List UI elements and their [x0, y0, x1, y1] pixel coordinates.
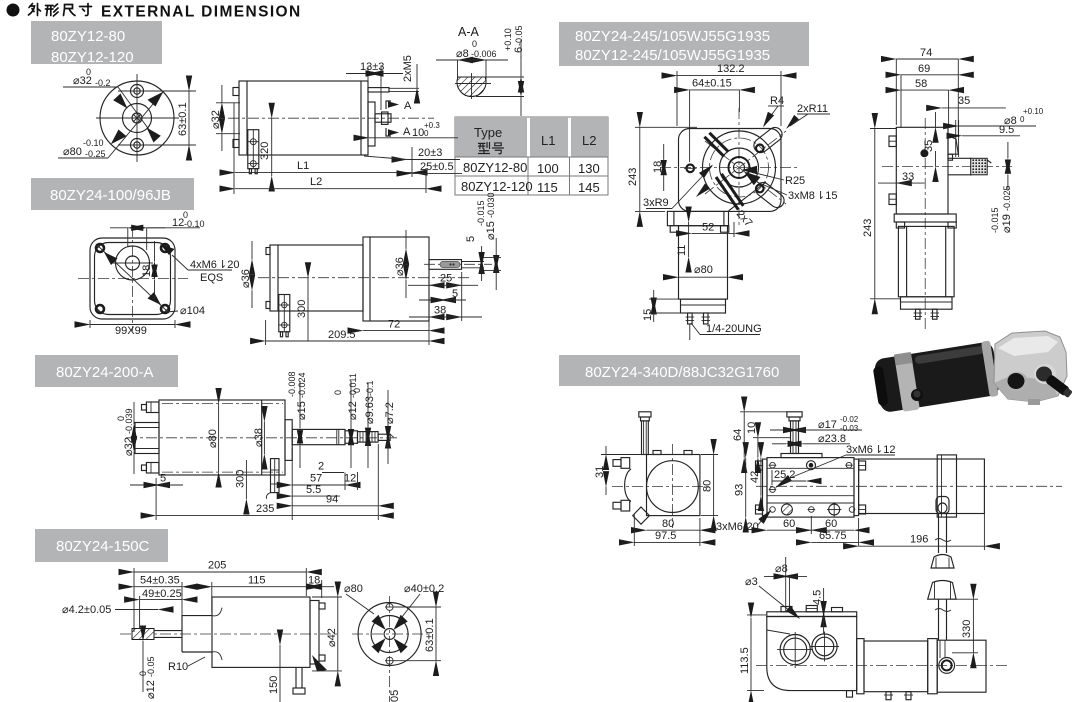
- centerlines: [660, 167, 800, 169]
- DRAWING B: motor side view 80ZY12: [210, 55, 462, 194]
- top screw bumps: [781, 607, 792, 612]
- dim 12: [345, 484, 358, 486]
- dim 64: [743, 412, 745, 458]
- svg-text:80ZY24-245/105WJ55G1935: 80ZY24-245/105WJ55G1935: [575, 28, 770, 45]
- svg-text:80ZY24-200-A: 80ZY24-200-A: [56, 364, 154, 381]
- pilot circle ⌀32: [123, 104, 152, 133]
- svg-text:25.2: 25.2: [774, 469, 795, 481]
- dim 18: [154, 241, 156, 262]
- svg-text:5: 5: [465, 236, 477, 242]
- svg-text:80ZY12-245/105WJ55G1935: 80ZY12-245/105WJ55G1935: [575, 47, 770, 64]
- svg-text:60: 60: [825, 518, 837, 530]
- dim 25±0.5: [412, 172, 462, 174]
- svg-text:L2: L2: [310, 176, 322, 188]
- svg-text:⌀8: ⌀8: [456, 48, 469, 60]
- svg-text:80: 80: [702, 480, 714, 492]
- rear bolt top: [146, 402, 159, 413]
- svg-text:A: A: [404, 100, 412, 112]
- dim 97.5: [634, 541, 700, 543]
- front flange: [368, 102, 375, 146]
- boss outer circle: [703, 131, 776, 204]
- centerline: [756, 664, 1008, 666]
- dim ⌀19: [1007, 142, 1009, 158]
- shaft: [375, 114, 391, 122]
- rear cylinder: [937, 640, 986, 692]
- svg-text:⌀80: ⌀80: [207, 429, 219, 448]
- inner ring: [729, 157, 750, 178]
- centerline: [120, 633, 340, 635]
- svg-text:⌀32: ⌀32: [210, 110, 222, 129]
- dim ⌀36 left: [251, 241, 253, 259]
- glyph 外: [29, 4, 41, 16]
- dim 150 wire: [279, 645, 281, 702]
- svg-text:130: 130: [578, 161, 600, 176]
- hole: [126, 256, 140, 270]
- svg-text:05: 05: [389, 690, 401, 702]
- dim 115: [212, 586, 306, 588]
- PHOTO: motor product photo: [871, 331, 1073, 415]
- shaft lines: [154, 630, 182, 632]
- svg-text:-0.2: -0.2: [95, 78, 111, 88]
- dim 72: [363, 330, 429, 332]
- dim 113.5: [750, 618, 752, 691]
- boss circle: [720, 148, 759, 187]
- svg-text:-0.25: -0.25: [85, 149, 106, 159]
- svg-text:R10: R10: [168, 661, 188, 673]
- svg-text:57: 57: [310, 473, 322, 485]
- left bolts: [621, 458, 630, 469]
- corner diamond: [633, 507, 650, 524]
- svg-text:4xM6: 4xM6: [190, 259, 217, 271]
- dim ⌀36 gearbox boss: [405, 230, 407, 249]
- DRAWING G: 245 front view: [627, 63, 837, 340]
- svg-text:35: 35: [923, 140, 935, 152]
- terminal hook: [271, 459, 280, 493]
- top tabs: [653, 451, 661, 455]
- svg-text:25: 25: [440, 273, 452, 285]
- dim ⌀32 left: [216, 102, 240, 104]
- svg-text:18: 18: [141, 265, 153, 277]
- flanged nut: [928, 581, 956, 600]
- bolt hole top: [131, 85, 144, 98]
- dim L2: [235, 188, 426, 190]
- label box 80ZY24-100/96JB: [31, 178, 194, 210]
- svg-text:EQS: EQS: [200, 272, 223, 284]
- motor flange: [894, 214, 956, 222]
- dim 5.5: [292, 495, 340, 497]
- svg-text:300: 300: [235, 470, 247, 488]
- svg-text:235: 235: [256, 503, 274, 515]
- shaft tip ⌀7.2: [378, 434, 390, 440]
- svg-text:⌀4.2±0.05: ⌀4.2±0.05: [62, 604, 111, 616]
- adjuster screw: [787, 412, 802, 417]
- svg-text:⌀36: ⌀36: [394, 257, 406, 276]
- bottom cap: [901, 297, 953, 309]
- svg-text:-0.02: -0.02: [840, 415, 859, 424]
- DRAWING J: 340D top view: [716, 412, 1062, 553]
- aux dash lines ⌀80: [162, 403, 283, 405]
- svg-text:42: 42: [749, 471, 761, 483]
- relief slots top: [704, 137, 724, 157]
- dim 11: [688, 222, 690, 257]
- gear housing top view: [767, 458, 854, 517]
- end cap: [928, 639, 938, 694]
- svg-text:5: 5: [160, 473, 166, 485]
- dim 5 keyway depth: [481, 246, 483, 259]
- motor flange: [667, 211, 728, 225]
- band: [894, 352, 920, 412]
- boss circle: [116, 246, 150, 280]
- svg-text:94: 94: [326, 494, 338, 506]
- svg-text:L2: L2: [582, 133, 596, 148]
- dim 300 wire: [245, 460, 247, 499]
- 2xM5 screw: [368, 88, 389, 92]
- dim 63±0.1: [435, 607, 437, 661]
- gearbox body: [896, 127, 948, 214]
- bolt hole bottom: [131, 139, 144, 152]
- dim 60 60: [767, 529, 811, 531]
- svg-text:330: 330: [961, 620, 973, 638]
- dim ⌀38: [263, 422, 265, 455]
- svg-text:20±3: 20±3: [418, 147, 442, 159]
- svg-text:R25: R25: [785, 175, 805, 187]
- label box 80ZY24-150C: [35, 529, 168, 562]
- side bolts: [756, 461, 763, 470]
- svg-text:72: 72: [388, 319, 400, 331]
- middle hole: [770, 487, 776, 493]
- dim 63±0.1: [188, 91, 190, 145]
- output shaft: [1045, 374, 1073, 399]
- A10 +0.3 note: [369, 137, 458, 139]
- svg-text:54±0.35: 54±0.35: [140, 575, 180, 587]
- dim 205: [134, 571, 306, 573]
- svg-text:L1: L1: [541, 133, 555, 148]
- shaft ⌀12: [345, 431, 358, 444]
- svg-text:0: 0: [472, 39, 477, 49]
- dim 54±0.35: [134, 586, 182, 588]
- svg-text:209.5: 209.5: [328, 329, 356, 341]
- svg-text:⌀12: ⌀12: [347, 401, 359, 420]
- svg-text:EXTERNAL DIMENSION: EXTERNAL DIMENSION: [101, 4, 302, 21]
- svg-text:⌀38: ⌀38: [253, 428, 265, 447]
- glyph 号: [492, 143, 503, 154]
- svg-text:115: 115: [248, 575, 266, 587]
- ext line rear: [233, 103, 235, 194]
- adjuster screw: [639, 412, 651, 417]
- motor cylinder: [859, 459, 985, 514]
- svg-text:320: 320: [259, 142, 271, 160]
- terminal pins: [249, 169, 251, 174]
- internal ledge: [767, 630, 790, 634]
- diagonal: [96, 244, 169, 313]
- dim 196: [859, 545, 985, 547]
- dim 99X99: [90, 324, 175, 326]
- dim 80 right: [713, 455, 715, 516]
- DRAWING H: 245 side view: [862, 47, 1044, 330]
- svg-text:74: 74: [920, 47, 932, 59]
- shaft ⌀15: [292, 429, 345, 444]
- svg-text:⌀17: ⌀17: [818, 419, 837, 431]
- body: [212, 597, 310, 667]
- motor cylinder black: [871, 339, 1001, 415]
- svg-text:⌀23.8: ⌀23.8: [818, 433, 846, 445]
- flange strips: [763, 459, 768, 515]
- centerlines: [132, 226, 134, 331]
- svg-text:1/4-20UNG: 1/4-20UNG: [706, 323, 762, 335]
- DRAWING F: 150C motor: [62, 560, 444, 702]
- svg-text:0: 0: [333, 390, 343, 395]
- rear stubs: [266, 248, 270, 255]
- svg-text:⌀104: ⌀104: [180, 305, 205, 317]
- svg-text:113.5: 113.5: [739, 647, 751, 674]
- hanging bolt head: [936, 497, 949, 514]
- shaft ext lines: [462, 261, 485, 263]
- dim 6: [520, 56, 522, 77]
- centerline output shaft: [424, 263, 492, 265]
- svg-text:⌀40±0.2: ⌀40±0.2: [404, 583, 444, 595]
- svg-text:5: 5: [452, 288, 458, 300]
- DRAWING A: flange circle view 80ZY12: [58, 67, 196, 162]
- tapped hole lines: [955, 120, 957, 157]
- svg-text:-0.008: -0.008: [287, 371, 297, 397]
- top plate: [767, 612, 857, 617]
- svg-text:-0.05: -0.05: [514, 25, 524, 46]
- foot: [1028, 399, 1040, 405]
- svg-text:35: 35: [958, 95, 970, 107]
- svg-text:0: 0: [1020, 115, 1025, 124]
- dim 300 wire: [307, 278, 309, 341]
- dim 31: [605, 446, 607, 455]
- centerline: [228, 117, 434, 119]
- right cap: [310, 601, 319, 665]
- svg-text:65.75: 65.75: [819, 530, 847, 542]
- pilot boss: [948, 136, 958, 155]
- shaft: [948, 157, 972, 159]
- svg-text:-0.015: -0.015: [990, 207, 1000, 233]
- cap nubs: [319, 603, 325, 609]
- output shaft: [429, 260, 462, 270]
- svg-text:⌀15: ⌀15: [485, 221, 497, 240]
- svg-text:52: 52: [702, 222, 714, 234]
- rear stubs: [233, 88, 239, 96]
- svg-text:80: 80: [662, 518, 674, 530]
- svg-text:⌀80: ⌀80: [344, 583, 363, 595]
- wires: [295, 667, 297, 688]
- svg-text:205: 205: [208, 560, 226, 572]
- glyph 形: [46, 4, 59, 16]
- svg-text:⌀9.63: ⌀9.63: [364, 396, 376, 424]
- glyph 寸: [80, 4, 92, 16]
- ports: [1006, 372, 1028, 392]
- dim 10: [757, 438, 759, 458]
- terminals: [886, 692, 891, 700]
- top shaft dims: [299, 381, 301, 428]
- DRAWING E: 200-A motor: [116, 371, 400, 520]
- bottom row holes: [770, 507, 776, 513]
- svg-text:33: 33: [902, 171, 914, 183]
- svg-text:0: 0: [352, 388, 362, 393]
- dim 15: [653, 290, 655, 299]
- rod: [938, 599, 940, 640]
- svg-text:R4: R4: [770, 95, 784, 107]
- svg-text:60: 60: [783, 518, 795, 530]
- dim 4.5: [823, 588, 825, 612]
- svg-text:⌀80: ⌀80: [694, 264, 713, 276]
- bolt centre ext lines: [118, 90, 196, 92]
- svg-text:0: 0: [424, 129, 429, 138]
- svg-text:11: 11: [676, 245, 688, 256]
- dim 25: [408, 284, 429, 286]
- inner square: [95, 243, 171, 315]
- glyph 尺: [64, 5, 76, 16]
- centerline: [126, 437, 400, 439]
- label box 80ZY12-80/120: [31, 21, 162, 66]
- svg-text:⌀36: ⌀36: [240, 269, 252, 288]
- big bore: [647, 461, 699, 513]
- body: [647, 455, 700, 516]
- DRAWING C: square flange 99x99: [78, 210, 239, 337]
- dim 243: [639, 127, 641, 211]
- svg-text:4.5: 4.5: [812, 590, 824, 605]
- motor body: [679, 226, 728, 299]
- svg-text:80ZY12-80: 80ZY12-80: [51, 28, 125, 45]
- dim 320 wire: [271, 118, 273, 176]
- svg-text:64±0.15: 64±0.15: [692, 78, 732, 90]
- svg-text:80ZY24-100/96JB: 80ZY24-100/96JB: [50, 187, 171, 204]
- front boss ⌀38: [285, 420, 292, 461]
- svg-text:100: 100: [537, 161, 559, 176]
- svg-text:25±0.5: 25±0.5: [420, 161, 454, 173]
- svg-text:-0.006: -0.006: [471, 49, 497, 59]
- svg-text:115: 115: [537, 180, 558, 195]
- svg-text:⌀19: ⌀19: [1001, 214, 1013, 233]
- dim ⌀12-0.05: [142, 641, 144, 692]
- snap ring groove: [336, 429, 338, 444]
- svg-text:-0.024: -0.024: [297, 372, 307, 398]
- dim ⌀32-0.039: [133, 402, 135, 424]
- knurled section ⌀9.63: [358, 432, 379, 443]
- svg-text:150: 150: [268, 676, 280, 694]
- svg-text:⇂15: ⇂15: [816, 190, 837, 202]
- dim ⌀42: [337, 597, 339, 671]
- bottom cap: [681, 299, 726, 313]
- label box 80ZY24-200-A: [35, 355, 178, 387]
- svg-text:-0.039: -0.039: [124, 408, 134, 434]
- motor body: [239, 81, 368, 155]
- svg-text:243: 243: [862, 219, 874, 237]
- motor body: [270, 245, 363, 311]
- svg-text:+0.10: +0.10: [1023, 107, 1044, 116]
- svg-text:⇂20: ⇂20: [218, 259, 239, 271]
- svg-text:3xM8: 3xM8: [788, 190, 815, 202]
- svg-text:80ZY12-80: 80ZY12-80: [463, 160, 527, 175]
- dim line ⌀8: [436, 59, 458, 61]
- dim 2: [322, 472, 344, 474]
- svg-text:300: 300: [296, 300, 308, 318]
- svg-text:⌀80: ⌀80: [63, 146, 82, 158]
- header bullet: [7, 4, 20, 17]
- dim 330: [972, 599, 974, 653]
- svg-text:⌀32: ⌀32: [73, 75, 92, 87]
- dim ⌀15 shaft: [495, 238, 497, 258]
- relief slots bottom: [716, 177, 738, 210]
- wing top-right: [751, 125, 785, 156]
- svg-text:80ZY12-120: 80ZY12-120: [461, 179, 533, 194]
- svg-text:3xR9: 3xR9: [643, 197, 669, 209]
- svg-text:38: 38: [434, 305, 446, 317]
- dim 20±3: [407, 159, 460, 161]
- front boss: [182, 616, 212, 652]
- header title: [29, 4, 92, 17]
- dim ⌀80: [218, 404, 220, 473]
- chamfer 2x7: [729, 182, 767, 211]
- keyway: [440, 261, 460, 267]
- svg-text:⌀32: ⌀32: [123, 437, 135, 456]
- svg-text:3xM6-20: 3xM6-20: [716, 521, 759, 533]
- motor body: [159, 400, 285, 475]
- studs: [916, 309, 921, 319]
- gearbox silver: [994, 331, 1067, 402]
- svg-text:-0.05: -0.05: [146, 656, 156, 677]
- label box 80ZY24-245: [559, 22, 809, 66]
- svg-text:-0.03: -0.03: [840, 424, 859, 433]
- black spokes: [372, 615, 386, 630]
- svg-text:12: 12: [172, 217, 184, 229]
- svg-text:10: 10: [412, 127, 424, 139]
- end ring: [981, 340, 999, 397]
- hanging bolt acorn nut: [931, 555, 954, 569]
- svg-text:15: 15: [642, 309, 654, 321]
- svg-text:63±0.1: 63±0.1: [424, 618, 436, 652]
- shaft vertical ext: [428, 300, 430, 345]
- dim 65.75: [811, 541, 858, 543]
- svg-text:Type: Type: [474, 125, 502, 140]
- dim 38: [409, 316, 429, 318]
- svg-text:99X99: 99X99: [115, 325, 147, 337]
- DRAWING AA: section A-A: [436, 25, 525, 116]
- holes top row: [770, 462, 776, 468]
- bolt circle dash: [710, 138, 769, 197]
- wing bottom-right: [753, 180, 787, 211]
- dim 93: [745, 458, 747, 517]
- svg-text:-0.030: -0.030: [486, 192, 496, 218]
- svg-text:31: 31: [594, 466, 606, 478]
- dim 42: [760, 458, 762, 496]
- svg-text:2: 2: [318, 461, 324, 473]
- hanging rod: [938, 514, 940, 554]
- svg-text:18: 18: [652, 161, 664, 173]
- svg-text:-0.025: -0.025: [1002, 185, 1012, 211]
- svg-text:9.5: 9.5: [999, 124, 1014, 136]
- svg-text:⌀42: ⌀42: [326, 628, 338, 647]
- svg-text:49±0.25: 49±0.25: [142, 588, 182, 600]
- terminal block: [279, 295, 290, 332]
- flange circle view: [344, 583, 444, 702]
- dim 80 bottom: [647, 529, 700, 531]
- svg-text:63±0.1: 63±0.1: [177, 102, 189, 136]
- svg-text:-0.011: -0.011: [348, 373, 358, 398]
- outer square: [90, 238, 175, 319]
- svg-text:12: 12: [344, 473, 356, 485]
- glyph 型: [478, 142, 489, 153]
- svg-text:⌀7.2: ⌀7.2: [384, 402, 396, 424]
- svg-text:97.5: 97.5: [655, 530, 676, 542]
- svg-text:80ZY24-340D/88JC32G1760: 80ZY24-340D/88JC32G1760: [585, 364, 779, 381]
- highlight: [914, 345, 984, 364]
- svg-text:-0.1: -0.1: [365, 380, 375, 396]
- svg-text:10: 10: [746, 422, 758, 434]
- svg-text:18: 18: [308, 575, 320, 587]
